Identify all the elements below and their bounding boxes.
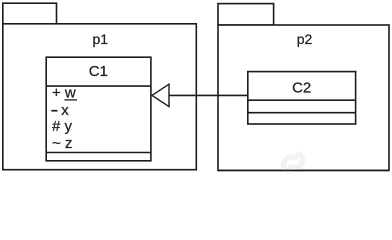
package p2 tab xyxy=(218,4,274,25)
class C2 operations separator xyxy=(248,112,356,114)
underline of w xyxy=(65,99,78,101)
svg-text:# y: # y xyxy=(52,118,73,135)
svg-text:p1: p1 xyxy=(93,31,109,47)
class C1 name separator xyxy=(46,85,151,87)
svg-text:C2: C2 xyxy=(292,79,311,96)
svg-text:C1: C1 xyxy=(89,63,108,80)
generalization wire xyxy=(169,94,248,96)
generalization arrowhead (hollow triangle) xyxy=(152,84,169,106)
svg-text:+ w: + w xyxy=(52,85,76,102)
package p2 body xyxy=(218,25,389,170)
watermark S xyxy=(281,151,306,174)
package p1 body xyxy=(3,24,197,170)
svg-text:x: x xyxy=(61,102,69,119)
class C1 operations separator xyxy=(46,152,151,154)
class C1 box xyxy=(46,57,151,161)
class C2 name separator xyxy=(248,99,356,101)
class C2 box xyxy=(248,72,356,124)
package p1 tab xyxy=(3,3,57,24)
svg-text:p2: p2 xyxy=(297,31,313,47)
package p2 bottom border (over watermark) xyxy=(218,169,389,171)
attribute - x (dash) xyxy=(51,110,57,112)
svg-text:~ z: ~ z xyxy=(52,135,72,152)
